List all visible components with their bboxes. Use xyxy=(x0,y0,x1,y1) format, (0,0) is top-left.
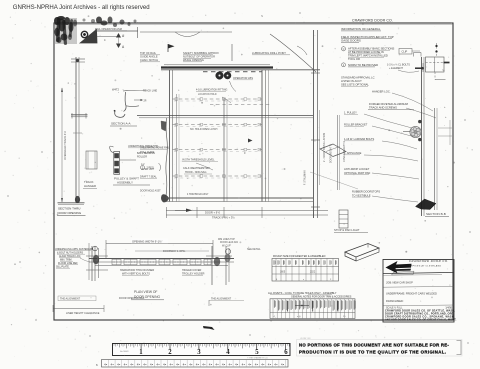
svg-text:STANDARD APPROVAL LC: STANDARD APPROVAL LC xyxy=(341,76,375,80)
svg-text:HANGER LOC.: HANGER LOC. xyxy=(372,90,391,94)
svg-text:2 PER UNIT: 2 PER UNIT xyxy=(142,169,155,171)
svg-text:4 TRIM MOLD ASSY: 4 TRIM MOLD ASSY xyxy=(187,193,209,196)
svg-text:SECTION B-B: SECTION B-B xyxy=(426,212,446,216)
svg-text:SEE LISTS OPTIONAL: SEE LISTS OPTIONAL xyxy=(341,83,369,87)
svg-text:DOOR WEIGHT R: DOOR WEIGHT R xyxy=(331,144,333,163)
svg-text:WHILE OPENING: WHILE OPENING xyxy=(183,58,204,62)
svg-text:NO PORTIONS OF THIS DOCUMENT A: NO PORTIONS OF THIS DOCUMENT ARE NOT SUI… xyxy=(299,342,449,347)
svg-text:INFORMATION OF GENERAL: INFORMATION OF GENERAL xyxy=(341,27,381,31)
svg-text:4: 4 xyxy=(150,363,152,367)
svg-text:4: 4 xyxy=(248,363,250,367)
svg-text:TRACK AND SCREWS: TRACK AND SCREWS xyxy=(369,106,397,110)
svg-text:1¾: 1¾ xyxy=(343,315,346,318)
svg-text:4: 4 xyxy=(189,363,191,367)
svg-text:4: 4 xyxy=(229,363,231,367)
svg-text:DOOR + 9'-0: DOOR + 9'-0 xyxy=(205,211,221,215)
svg-text:4: 4 xyxy=(124,363,126,367)
svg-text:TO VESTIBULE: TO VESTIBULE xyxy=(352,193,371,197)
svg-text:RUBBER DOORSTOPS: RUBBER DOORSTOPS xyxy=(352,190,380,194)
svg-text:WITH VERTICAL BOLTS: WITH VERTICAL BOLTS xyxy=(122,273,150,276)
svg-text:4: 4 xyxy=(274,363,276,367)
svg-text:C: C xyxy=(343,47,345,51)
svg-text:W/ CLIP: W/ CLIP xyxy=(222,245,231,247)
svg-text:DOOR OPENING: DOOR OPENING xyxy=(58,211,82,215)
svg-text:DRAFT 7 SEAL: DRAFT 7 SEAL xyxy=(140,176,157,179)
svg-text:-: - xyxy=(444,124,445,127)
svg-text:IN 5TH THRESHOLD LEVEL: IN 5TH THRESHOLD LEVEL xyxy=(182,159,215,162)
svg-text:CLIP: CLIP xyxy=(402,50,408,54)
svg-text:LUBRICATING DRILL POINT: LUBRICATING DRILL POINT xyxy=(252,51,286,55)
svg-text:5: 5 xyxy=(255,349,259,356)
svg-text:COVER WEIGHT R: COVER WEIGHT R xyxy=(343,141,346,162)
svg-text:4: 4 xyxy=(104,363,106,367)
svg-text:+: + xyxy=(241,53,243,57)
svg-text:LISTED IN ACCT: LISTED IN ACCT xyxy=(341,79,362,83)
svg-text:US PAT OFF: US PAT OFF xyxy=(300,337,312,340)
svg-text:LINER HEIGHT CLEARANCE: LINER HEIGHT CLEARANCE xyxy=(66,312,100,315)
svg-text:F. STALLMAN: F. STALLMAN xyxy=(304,170,307,185)
svg-text:STOP & PAD LIGHT: STOP & PAD LIGHT xyxy=(334,228,360,232)
svg-text:1-16 W. LAMINAR BOLTS: 1-16 W. LAMINAR BOLTS xyxy=(344,137,374,141)
svg-text:4: 4 xyxy=(156,363,158,367)
svg-text:3: 3 xyxy=(197,349,201,356)
svg-text:1: 1 xyxy=(139,349,143,356)
svg-text:4: 4 xyxy=(170,363,172,367)
svg-text:JOB: NEW CAR SHOP: JOB: NEW CAR SHOP xyxy=(386,280,413,284)
svg-text:OFFICES AT CLEVELAND: OFFICES AT CLEVELAND xyxy=(409,264,441,267)
svg-text:HOOD - NON-SAG: HOOD - NON-SAG xyxy=(185,171,206,174)
svg-text:4: 4 xyxy=(196,363,198,367)
svg-text:ALL RIVETS - ⅓ DIA. TO BASE HO: ALL RIVETS - ⅓ DIA. TO BASE HOLES ONLY -… xyxy=(268,291,337,295)
svg-text:2: 2 xyxy=(168,349,172,356)
svg-text:SILL PLATE: SILL PLATE xyxy=(56,266,69,269)
svg-text:1605: 1605 xyxy=(280,272,286,274)
svg-text:1. PULLEY: 1. PULLEY xyxy=(344,111,357,115)
svg-text:NORM TO BE PROVED: NORM TO BE PROVED xyxy=(348,63,378,67)
svg-text:THE ALIGNMENT: THE ALIGNMENT xyxy=(60,298,81,301)
svg-text:PLAN VIEW OF: PLAN VIEW OF xyxy=(134,290,157,294)
svg-text:4: 4 xyxy=(268,363,270,367)
svg-text:4-16 LUBRICATION FITTING: 4-16 LUBRICATION FITTING xyxy=(196,89,227,92)
svg-text:N: N xyxy=(261,14,263,18)
svg-text:SEE DETAIL: SEE DETAIL xyxy=(247,248,261,251)
svg-text:CALK WEATHERSTRIP: CALK WEATHERSTRIP xyxy=(183,167,210,170)
svg-text:GUIDE ANGLE: GUIDE ANGLE xyxy=(140,55,158,59)
svg-text:GAGE DOORS: GAGE DOORS xyxy=(341,39,361,43)
svg-text:4: 4 xyxy=(261,363,263,367)
svg-text:OVERHEAD TRACK 4'-0: OVERHEAD TRACK 4'-0 xyxy=(63,130,67,160)
svg-text:OPTIONAL PART PAD: OPTIONAL PART PAD xyxy=(344,171,370,175)
svg-text:4: 4 xyxy=(130,363,132,367)
svg-text:TRACK 9'-9½ + 3½: TRACK 9'-9½ + 3½ xyxy=(212,216,235,220)
svg-text:2022: 2022 xyxy=(310,272,316,274)
svg-text:4: 4 xyxy=(226,349,230,356)
svg-text:4: 4 xyxy=(235,363,237,367)
svg-text:SAFETY SNUBBING APPROX: SAFETY SNUBBING APPROX xyxy=(183,51,219,55)
svg-text:FRANCHISED:: FRANCHISED: xyxy=(386,299,404,303)
svg-text:ASSEMBLY: ASSEMBLY xyxy=(117,181,133,185)
svg-text:CRAWFORD DOOR CO.: CRAWFORD DOOR CO. xyxy=(409,259,449,263)
svg-text:2R: 2R xyxy=(144,100,147,102)
svg-text:4: 4 xyxy=(215,363,217,367)
svg-text:OPENING WIDTH 9'-1½: OPENING WIDTH 9'-1½ xyxy=(132,239,162,243)
svg-text:ROLLER: ROLLER xyxy=(137,156,147,159)
svg-text:4: 4 xyxy=(176,363,178,367)
svg-text:NUT/BOLT OF OPERATOR: NUT/BOLT OF OPERATOR xyxy=(183,55,215,59)
svg-text:ANCHOR DOOR SALES CO. OF GREAT: ANCHOR DOOR SALES CO. OF GREAT FALLS, MO… xyxy=(385,319,457,322)
svg-text:FORGED RIVETED ALUMINUM: FORGED RIVETED ALUMINUM xyxy=(369,102,409,106)
svg-text:DOOR LEAF ADJ: DOOR LEAF ADJ xyxy=(220,241,238,244)
svg-text:OPERATOR LBS: OPERATOR LBS xyxy=(233,76,253,80)
svg-text:HANGER: HANGER xyxy=(84,184,96,188)
svg-text:4: 4 xyxy=(255,363,257,367)
svg-text:4: 4 xyxy=(242,363,244,367)
svg-text:UNDERHUNG HDWE/THK: UNDERHUNG HDWE/THK xyxy=(128,145,159,148)
svg-text:LOCATION HOLD: LOCATION HOLD xyxy=(198,93,217,96)
svg-text:ROUGH SIZE FOR ERECTED & ASSEM: ROUGH SIZE FOR ERECTED & ASSEMBLED xyxy=(273,255,326,258)
svg-text:UNDERFRAME: FREIGHT CARS WELD: UNDERFRAME: FREIGHT CARS WELDED xyxy=(386,291,437,295)
svg-text:ROLLER BRACKET: ROLLER BRACKET xyxy=(344,123,368,127)
svg-text:DIM LINES TOP: DIM LINES TOP xyxy=(218,239,235,241)
svg-text:4: 4 xyxy=(202,363,204,367)
svg-text:4: 4 xyxy=(143,363,145,367)
svg-text:CRAWFORD DOOR CO.: CRAWFORD DOOR CO. xyxy=(352,19,393,23)
svg-text:No.C604R: No.C604R xyxy=(120,351,129,353)
svg-text:PRODUCTION IT IS DUE TO THE QU: PRODUCTION IT IS DUE TO THE QUALITY OF T… xyxy=(299,350,446,355)
svg-text:4: 4 xyxy=(111,363,113,367)
svg-text:4: 4 xyxy=(281,363,283,367)
svg-text:AT BE PROVIDED LOOSE IN: AT BE PROVIDED LOOSE IN xyxy=(348,50,384,54)
svg-text:TOOL OR: TOOL OR xyxy=(348,57,360,61)
svg-text:4: 4 xyxy=(183,363,185,367)
svg-text:W4T2: W4T2 xyxy=(112,88,119,92)
svg-text:DOOR MOLD ASST: DOOR MOLD ASST xyxy=(140,190,161,193)
svg-text:ANTI-DROP LOCKET: ANTI-DROP LOCKET xyxy=(344,167,370,171)
svg-text:SECTION A-A: SECTION A-A xyxy=(111,122,132,126)
svg-text:NO. HOLD OPEN LATCH: NO. HOLD OPEN LATCH xyxy=(190,128,218,131)
svg-text:¼: ¼ xyxy=(443,69,445,72)
svg-text:TRIM LEFT, WATCH INSTALLED: TRIM LEFT, WATCH INSTALLED xyxy=(348,54,388,58)
svg-text:CHAN. NOTCH: CHAN. NOTCH xyxy=(140,58,158,62)
svg-text:6: 6 xyxy=(284,349,288,356)
svg-text:4: 4 xyxy=(222,363,224,367)
svg-text:THE ALIGNMENT: THE ALIGNMENT xyxy=(211,298,232,301)
svg-text:AFTER ASSEMBLY BANC SECTIONS: AFTER ASSEMBLY BANC SECTIONS xyxy=(348,47,395,51)
svg-text:4: 4 xyxy=(117,363,119,367)
svg-text:4: 4 xyxy=(209,363,211,367)
svg-text:RAIL OPERATOR ASM: RAIL OPERATOR ASM xyxy=(95,27,122,31)
svg-text:4: 4 xyxy=(137,363,139,367)
svg-text:GENERAL NOTES FOR DOOR TRIM &: GENERAL NOTES FOR DOOR TRIM & ACCESSORIE… xyxy=(291,296,352,299)
svg-text:© THE STARRETT CO.: © THE STARRETT CO. xyxy=(247,357,268,360)
svg-text:+ ELEMENT: + ELEMENT xyxy=(389,67,403,70)
svg-text:TOP OF RAIL: TOP OF RAIL xyxy=(140,51,157,55)
svg-text:TROLLEY HOLDER: TROLLEY HOLDER xyxy=(182,273,205,276)
svg-text:4: 4 xyxy=(163,363,165,367)
svg-text:GNRHS-NPRHA Joint Archives - a: GNRHS-NPRHA Joint Archives - all rights … xyxy=(13,5,150,11)
